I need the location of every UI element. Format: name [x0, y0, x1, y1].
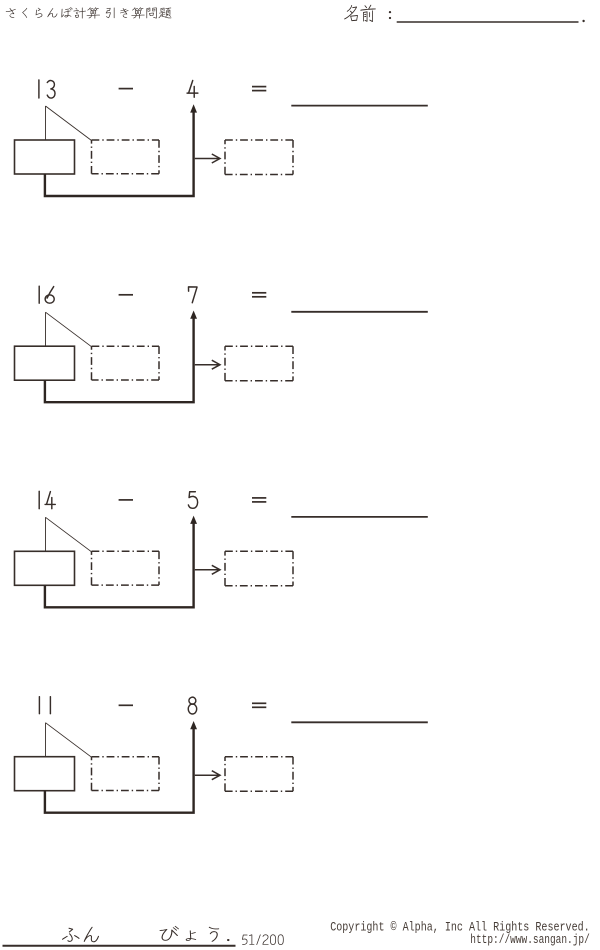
problem 1 group offset — [15, 80, 428, 196]
problem 2 tens box (solid rectangle) — [15, 346, 75, 380]
problem 3 ones box (dash-dot rectangle) — [92, 551, 160, 585]
problem 2 cherry branch right — [46, 312, 92, 347]
problem 1 result box (dash-dot rectangle) — [225, 140, 293, 175]
problem 4 ones box (dash-dot rectangle) — [92, 757, 160, 791]
problem 3 equals sign — [252, 498, 266, 502]
problem 1 cherry branch right — [46, 106, 92, 141]
problem 2 answer underline — [291, 311, 428, 313]
footer time label びょう. — [160, 926, 230, 942]
problem 3 group offset — [15, 491, 428, 607]
problem 1 subtrahend "4" — [187, 80, 198, 97]
problem 3 right arrow — [195, 565, 220, 574]
problem 2 right arrow — [195, 360, 220, 369]
problem 3 minus sign — [119, 499, 133, 501]
name label colon — [389, 11, 391, 19]
problem 2 minus sign — [119, 294, 133, 296]
problem 2 result box (dash-dot rectangle) — [225, 346, 293, 381]
problem 4 cherry branch right — [46, 723, 92, 758]
problem 1 minuend "13" — [39, 80, 55, 98]
problem 3 answer underline — [291, 516, 428, 518]
problem 3 result box (dash-dot rectangle) — [225, 551, 293, 586]
problem 3 cherry branch right — [46, 517, 92, 552]
problem 4 answer underline — [291, 721, 428, 723]
problem 3 cherry branch left — [45, 517, 47, 551]
name label 名前 — [344, 5, 376, 22]
problem 4 minuend "11" — [39, 697, 50, 714]
problem 3 subtrahend "5" — [188, 492, 197, 509]
problem 4 group offset — [15, 696, 428, 812]
problem 4 equals sign — [252, 703, 266, 707]
problem 1 tens box (solid rectangle) — [15, 140, 75, 174]
footer answer underline — [3, 945, 236, 947]
problem 4 right arrow — [195, 771, 220, 780]
page number 51/200 — [242, 934, 284, 945]
problem 4 subtrahend "8" — [188, 696, 197, 714]
problem 4 tens box (solid rectangle) — [15, 757, 75, 791]
problem 1 cherry branch left — [45, 106, 47, 140]
svg-text:http://www.sangan.jp/: http://www.sangan.jp/ — [470, 933, 590, 947]
worksheet title さくらんぼ計算 引き算問題 — [6, 7, 172, 19]
problem 1 ones box (dash-dot rectangle) — [92, 140, 160, 174]
problem 1 carry path with up arrow — [45, 104, 197, 196]
footer time label ふん — [62, 927, 99, 943]
problem 4 result box (dash-dot rectangle) — [225, 757, 293, 792]
problem 2 equals sign — [252, 293, 266, 297]
problem 2 minuend "16" — [39, 286, 54, 303]
problem 1 equals sign — [252, 87, 266, 91]
problem 1 answer underline — [291, 105, 428, 107]
problem 4 carry path with up arrow — [45, 721, 197, 813]
problem 3 minuend "14" — [39, 491, 55, 508]
name line end period — [582, 20, 584, 22]
problem 4 minus sign — [119, 704, 133, 706]
problem 2 cherry branch left — [45, 312, 47, 346]
problem 1 right arrow — [195, 154, 220, 163]
name underline — [397, 21, 579, 23]
problem 2 ones box (dash-dot rectangle) — [92, 346, 160, 380]
problem 2 group offset — [15, 286, 428, 402]
problem 4 cherry branch left — [45, 723, 47, 757]
problem 2 subtrahend "7" — [188, 287, 197, 303]
problem 1 minus sign — [119, 88, 133, 90]
problem 3 carry path with up arrow — [45, 516, 197, 608]
problem 3 tens box (solid rectangle) — [15, 551, 75, 585]
problem 2 carry path with up arrow — [45, 311, 197, 403]
